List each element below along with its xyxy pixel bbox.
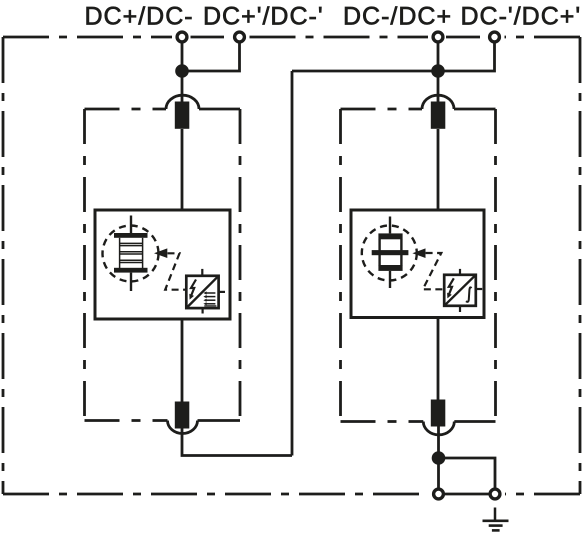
terminal X5 (bottom) <box>434 489 444 499</box>
crossing hop arc over box 1 top <box>166 95 199 109</box>
U1 actuation dashed link <box>165 253 186 289</box>
inner protection-path box 2 (dash-dot) <box>341 109 496 422</box>
U2 spark gap dashed circle <box>362 226 417 281</box>
U2 indicator box stubs <box>460 269 482 312</box>
wire branch 1: module 1 to lower fuse <box>181 319 184 402</box>
wire crossover riser <box>291 71 294 456</box>
U2 spark gap top lead <box>389 217 391 234</box>
U2 indicator integral sign <box>466 287 471 302</box>
U2 spark gap bottom lead <box>389 271 391 288</box>
U2 actuation dashed link <box>423 253 445 289</box>
wire terminal X2 riser to node A <box>188 43 240 71</box>
U1 varistor top lead <box>130 216 132 234</box>
disconnector fuse F4 <box>431 400 446 427</box>
ground symbol <box>483 508 509 531</box>
crossing hop arc under box 1 bottom <box>168 421 198 434</box>
svg-text:DC+/DC-: DC+/DC- <box>85 3 194 31</box>
U1 varistor bottom cap <box>114 268 148 273</box>
disconnector fuse F2 <box>175 402 190 429</box>
node C junction dot <box>432 451 446 465</box>
wire terminal X4 riser to node B <box>444 43 495 71</box>
wire branch 2: module 2 to lower fuse <box>437 318 440 401</box>
U2 indicator lightning bolt <box>447 278 454 298</box>
U2 actuation arrow head <box>412 248 425 258</box>
wire terminal X3 down through branch 2 top <box>437 43 440 102</box>
crossing hop arc over box 2 top <box>422 95 454 109</box>
surge module U1 outline <box>95 210 230 319</box>
wire between terminals X5 and X6 <box>445 493 489 496</box>
disconnector fuse F1 <box>175 102 190 129</box>
wire branch 1 bottom to crossover riser <box>182 428 292 456</box>
terminal X1 DC+/DC- <box>177 32 187 42</box>
terminal X2 DC+'/DC-' <box>235 32 245 42</box>
terminal X3 DC-/DC+ <box>433 32 443 42</box>
enclosure border top edge (dash-dot) <box>3 36 580 39</box>
U1 indicator bars <box>203 291 216 306</box>
U2 indicator box diagonal <box>444 275 476 306</box>
U1 varistor bottom lead <box>130 273 132 291</box>
inner protection-path box 1 (dash-dot) <box>85 109 241 421</box>
terminal X6 (bottom, earthed) <box>490 489 500 499</box>
U1 indicator lightning bolt <box>189 280 196 300</box>
U1 varistor body winding <box>120 238 143 268</box>
U1 disconnect/indicator box <box>186 276 218 308</box>
node A junction dot <box>175 64 189 78</box>
U1 varistor top cap <box>114 233 148 238</box>
U1 indicator box stubs <box>202 269 225 314</box>
U2 spark gap top electrode <box>378 233 402 239</box>
wire branch 1: fuse to module 1 <box>181 129 184 210</box>
U1 actuation arrow head <box>154 248 167 258</box>
svg-text:DC+'/DC-': DC+'/DC-' <box>203 3 324 31</box>
U1 indicator box diagonal <box>186 276 218 308</box>
wire crossover top run to node B <box>292 70 438 73</box>
svg-text:DC-/DC+: DC-/DC+ <box>343 3 452 31</box>
wire terminal X1 down through branch 1 top <box>181 43 184 102</box>
U2 spark gap bottom electrode <box>378 265 402 271</box>
terminal X4 DC-'/DC+' <box>490 32 500 42</box>
crossing hop arc under box 2 bottom <box>423 422 454 435</box>
surge module U2 outline <box>351 210 484 318</box>
wire node C to terminal X6 <box>439 458 496 488</box>
svg-text:DC-'/DC+': DC-'/DC+' <box>461 3 582 31</box>
U2 spark gap body walls <box>380 239 402 266</box>
U2 spark gap middle electrode <box>372 250 409 255</box>
enclosure border right edge (dash-dot) <box>579 37 582 494</box>
disconnector fuse F3 <box>431 102 446 129</box>
wire branch 2 bottom to terminal X5 <box>437 425 440 488</box>
U2 disconnect/indicator box <box>444 275 476 306</box>
U1 varistor dashed circle <box>103 226 159 282</box>
node B junction dot <box>431 64 445 78</box>
wire branch 2: fuse to module 2 <box>437 129 440 210</box>
enclosure border bottom edge (dash-dot) <box>3 493 580 496</box>
enclosure border left edge (dash-dot) <box>2 37 5 494</box>
